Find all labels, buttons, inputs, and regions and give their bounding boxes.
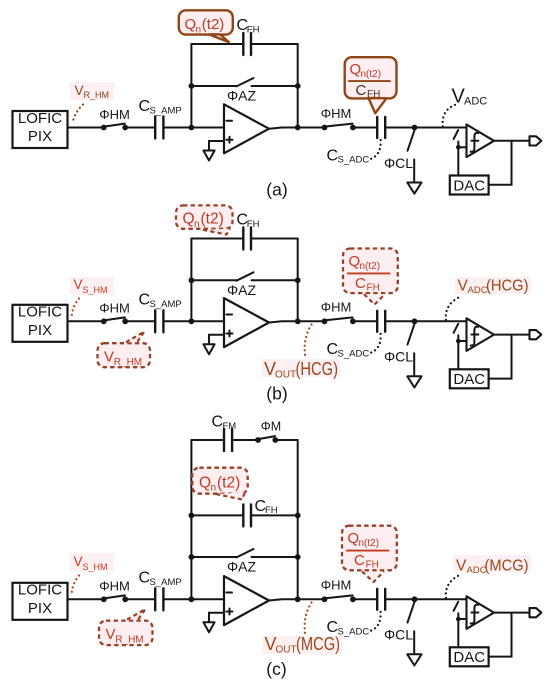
node right feedback junction PHI_AZ row (b) [295, 277, 301, 283]
ground below PHI_CL (a) [407, 183, 421, 194]
svg-text:ΦM: ΦM [261, 419, 281, 433]
svg-text:n: n [196, 24, 202, 35]
svg-text:S_HM: S_HM [83, 562, 108, 572]
callout dotted arc V_OUT(MCG) (c) [305, 603, 312, 634]
callout bubble Q_n(t2) (a) [179, 10, 233, 34]
svg-text:ΦAZ: ΦAZ [227, 559, 257, 575]
op-amp non-inverting input marker (a) [227, 139, 233, 141]
wire PHI_CL to ground (a) [413, 160, 415, 183]
output pad (b) [530, 330, 542, 339]
wire PHI_AZ branch right (c) [252, 556, 298, 558]
svg-text:ΦHM: ΦHM [99, 579, 130, 594]
op-amp amplifier (a) [224, 104, 269, 153]
node right feedback junction PHI_AZ row (c) [295, 554, 301, 560]
switch at comparator input (a) [454, 130, 459, 139]
wire reference node to comparator (a) [458, 146, 466, 148]
svg-text:C: C [327, 147, 339, 164]
svg-text:Q: Q [350, 61, 362, 78]
svg-text:OUT: OUT [275, 369, 296, 380]
svg-text:S_AMP: S_AMP [150, 577, 182, 588]
svg-text:Q: Q [348, 530, 360, 547]
label V_S_HM (b) [70, 277, 114, 295]
node summing junction at amplifier input (b) [189, 318, 195, 324]
callout dotted arc V_OUT(HCG) (b) [305, 325, 312, 356]
node V_ADC sampling node (c) [412, 596, 418, 602]
node comparator reference input (c) [456, 617, 461, 622]
wire PHI_AZ branch right (b) [252, 279, 298, 281]
svg-text:C: C [354, 552, 365, 569]
svg-text:(t2): (t2) [202, 16, 225, 33]
comparator (b) [467, 318, 495, 351]
svg-text:ADC: ADC [468, 285, 488, 296]
svg-text:(MCG): (MCG) [485, 558, 529, 575]
wire right feedback vertical (b) [297, 239, 299, 322]
switch PHI_AZ auto-zero (a) [237, 78, 254, 86]
switch PHI_AZ auto-zero (c) [237, 549, 254, 557]
node V_ADC sampling node (b) [412, 318, 418, 324]
wire C_S_ADC to comparator (b) [385, 320, 466, 322]
wire switch to C_S_ADC (b) [353, 320, 377, 322]
wire PHI_CL to ground (c) [413, 631, 415, 654]
svg-text:FH: FH [247, 219, 260, 230]
svg-text:(b): (b) [266, 384, 287, 404]
svg-text:n(t2): n(t2) [361, 69, 382, 80]
svg-text:(c): (c) [266, 659, 286, 679]
comparator clocked symbol (b) [470, 327, 479, 346]
callout dotted arc C_S_ADC (c) [371, 612, 381, 631]
svg-text:DAC: DAC [453, 371, 485, 388]
node left feedback junction PHI_AZ row (a) [189, 83, 195, 89]
svg-text:V: V [106, 626, 116, 643]
wire C_FH to right vertical (a) [251, 43, 298, 45]
callout dashed box Q_n(t2) (c) [192, 468, 247, 494]
svg-text:ΦHM: ΦHM [321, 578, 352, 593]
node summing junction at amplifier input (c) [189, 596, 195, 602]
wire switch to C_S_AMP (c) [125, 598, 155, 600]
node V_ADC sampling node (a) [412, 125, 418, 131]
ground below PHI_CL (b) [407, 376, 421, 387]
capacitor C_S_ADC (a) [376, 117, 378, 138]
label V_S_HM (c) [70, 553, 114, 571]
svg-text:DAC: DAC [453, 177, 485, 194]
wire comparator output (a) [494, 140, 530, 142]
svg-text:ΦCL: ΦCL [384, 349, 413, 365]
capacitor C_S_ADC (b) [376, 311, 378, 332]
wire reference node to comparator (c) [458, 618, 466, 620]
op-amp inverting input marker (c) [227, 592, 233, 594]
wire C_FH branch right (c) [251, 514, 298, 516]
svg-text:FH: FH [247, 24, 260, 35]
wire left feedback vertical (b) [190, 239, 192, 322]
wire top feedback branch left (b) [191, 238, 243, 240]
callout dotted arc V_ADC(HCG) (b) [446, 297, 460, 320]
svg-text:Q: Q [183, 211, 195, 228]
wire top feedback branch left (c) [191, 439, 224, 441]
callout dotted arc V_ADC(MCG) (c) [446, 575, 460, 598]
switch PHI_HM input sampling switch (a) [101, 125, 107, 131]
capacitor C_S_ADC (c) [376, 589, 378, 610]
svg-text:FH: FH [366, 560, 379, 571]
callout dotted arc V_S_HM (c) [72, 576, 80, 596]
svg-text:S_ADC: S_ADC [338, 155, 370, 166]
switch PHI_HM input sampling switch (b) [101, 318, 107, 324]
wire switch to C_S_ADC (a) [353, 127, 377, 129]
svg-text:S_ADC: S_ADC [338, 349, 370, 360]
wire non-inverting input to ground (a) [209, 141, 224, 151]
capacitor C_S_AMP (c) [154, 588, 156, 610]
switch at comparator input (c) [454, 602, 459, 611]
svg-text:V: V [74, 554, 83, 569]
capacitor C_FM (c) [223, 429, 225, 451]
op-amp inverting input marker (b) [227, 314, 233, 316]
svg-text:R_HM: R_HM [84, 90, 110, 100]
switch PHI_HM input sampling switch (c) [101, 596, 107, 602]
svg-text:FH: FH [367, 282, 380, 293]
callout dashed box V_R_HM (c) [99, 621, 153, 646]
svg-text:LOFIC: LOFIC [18, 582, 62, 599]
callout dotted arc V_ADC (a) [443, 104, 458, 127]
wire right feedback vertical (c) [297, 440, 299, 599]
wire op-amp output (b) [269, 321, 325, 322]
ground at op-amp non-inverting input (c) [203, 622, 214, 632]
op-amp non-inverting input marker (b) [227, 333, 233, 335]
wire left feedback vertical (c) [190, 440, 192, 599]
capacitor C_S_AMP (b) [154, 310, 156, 332]
callout dashed box V_R_HM (b) [98, 343, 151, 367]
wire right feedback vertical (a) [297, 44, 299, 128]
callout dotted arc V_R_HM (a) [73, 105, 84, 123]
DAC block (b) [450, 369, 489, 388]
callout dotted arc C_S_ADC (b) [371, 334, 381, 353]
wire PHI_AZ branch left (c) [191, 556, 236, 558]
svg-text:C: C [212, 414, 224, 431]
svg-text:S_ADC: S_ADC [338, 627, 370, 638]
op-amp inverting input marker (a) [227, 120, 233, 122]
svg-text:ΦHM: ΦHM [99, 107, 130, 122]
svg-text:C: C [139, 570, 151, 587]
callout dashed box Q_n(t2) (b) [176, 205, 233, 228]
op-amp non-inverting input marker (c) [227, 611, 233, 613]
svg-text:ΦHM: ΦHM [321, 300, 352, 315]
svg-text:ΦCL: ΦCL [384, 627, 413, 643]
capacitor C_FH (a) [242, 33, 244, 55]
wire comparator output to DAC feedback (c) [489, 613, 512, 657]
switch PHI_HM output sampling switch (c) [322, 596, 328, 602]
wire switch to C_S_ADC (c) [353, 598, 377, 600]
ground below PHI_CL (c) [407, 654, 421, 665]
wire comparator output to DAC feedback (b) [489, 335, 512, 379]
node comparator reference input (b) [456, 339, 461, 344]
node right feedback junction PHI_AZ row (a) [295, 83, 301, 89]
wire C_S_AMP to summing node (b) [163, 320, 224, 322]
comparator clocked symbol (a) [470, 133, 479, 152]
svg-text:FH: FH [367, 89, 380, 100]
svg-text:V: V [104, 348, 114, 365]
capacitor C_S_AMP (a) [154, 117, 156, 139]
switch PHI_M (c) [255, 437, 261, 443]
switch at comparator input (b) [454, 324, 459, 333]
comparator (a) [467, 125, 495, 158]
op-amp amplifier (b) [224, 298, 269, 347]
node comparator reference input (a) [456, 145, 461, 150]
callout dashed box fraction Q_n(t2)/C_FH (b) [343, 249, 398, 294]
svg-text:Q: Q [349, 253, 361, 270]
svg-text:LOFIC: LOFIC [18, 110, 62, 127]
svg-text:(t2): (t2) [217, 474, 240, 491]
svg-text:ADC: ADC [464, 96, 487, 108]
wire LOFIC output to switch PHI_HM (c) [68, 598, 104, 600]
wire C_FH branch left (c) [191, 514, 243, 516]
wire PHI_AZ branch left (a) [191, 85, 236, 87]
svg-text:n: n [194, 219, 200, 230]
node amplifier output junction (b) [295, 318, 301, 324]
wire C_S_ADC to comparator (c) [385, 598, 466, 600]
wire op-amp output (a) [269, 128, 325, 129]
node amplifier output junction (a) [295, 125, 301, 131]
svg-text:S_AMP: S_AMP [150, 105, 182, 116]
svg-text:C: C [139, 98, 151, 115]
wire LOFIC output to switch PHI_HM (b) [68, 320, 104, 322]
output pad (a) [530, 136, 542, 145]
svg-text:n(t2): n(t2) [360, 261, 381, 272]
wire C_FH to right vertical (b) [251, 238, 298, 240]
label V_ADC(HCG) (b) [455, 277, 531, 294]
wire PHI_AZ branch left (b) [191, 279, 236, 281]
svg-text:n: n [211, 483, 217, 494]
svg-text:ΦHM: ΦHM [99, 301, 130, 316]
svg-text:(t2): (t2) [201, 211, 224, 228]
DAC block (a) [450, 176, 489, 195]
svg-text:ΦHM: ΦHM [321, 106, 352, 121]
node right junction C_FH row (c) [295, 513, 301, 519]
svg-text:(HCG): (HCG) [296, 359, 339, 379]
wire comparator reference node (c) [457, 613, 459, 647]
node summing junction at amplifier input (a) [189, 125, 195, 131]
label V_OUT(HCG) (b) [262, 359, 340, 377]
wire comparator output (b) [494, 334, 530, 336]
callout dotted arc C_S_ADC (a) [371, 140, 381, 159]
switch PHI_CL clamp switch (b) [408, 324, 415, 345]
callout dashed box fraction Q_n(t2)/C_FH (c) [342, 526, 397, 571]
svg-text:ΦAZ: ΦAZ [227, 282, 257, 298]
node left feedback junction PHI_AZ row (b) [189, 277, 195, 283]
svg-text:C: C [327, 341, 339, 358]
svg-text:LOFIC: LOFIC [18, 304, 62, 321]
wire C_FM to switch PHI_M (c) [232, 439, 258, 441]
wire PHI_AZ branch right (a) [252, 85, 298, 87]
wire non-inverting input to ground (b) [209, 335, 224, 345]
svg-text:S_AMP: S_AMP [150, 299, 182, 310]
LOFIC PIX pixel block (b) [13, 305, 68, 342]
switch PHI_AZ auto-zero (b) [237, 272, 254, 280]
svg-text:R_HM: R_HM [115, 634, 143, 645]
wire C_S_AMP to summing node (a) [163, 127, 224, 129]
svg-text:PIX: PIX [28, 322, 52, 339]
node left junction C_FH row (c) [189, 513, 195, 519]
label V_ADC(MCG) (c) [453, 555, 531, 572]
ground at op-amp non-inverting input (a) [203, 151, 214, 161]
LOFIC PIX pixel block (c) [13, 583, 68, 620]
wire PHI_CL to ground (b) [413, 353, 415, 376]
svg-text:(a): (a) [266, 180, 287, 200]
svg-text:FM: FM [223, 421, 237, 432]
svg-text:PIX: PIX [28, 128, 52, 145]
switch PHI_CL clamp switch (c) [408, 602, 415, 623]
switch PHI_HM output sampling switch (a) [322, 125, 328, 131]
svg-text:DAC: DAC [453, 649, 485, 666]
svg-text:Q: Q [185, 16, 197, 33]
switch PHI_CL clamp switch (a) [408, 130, 415, 151]
DAC block (c) [450, 647, 489, 666]
svg-text:V: V [75, 83, 84, 98]
wire comparator output to DAC feedback (a) [489, 141, 512, 185]
svg-text:C: C [355, 275, 366, 292]
wire C_S_ADC to comparator (a) [385, 127, 466, 129]
svg-text:n(t2): n(t2) [359, 538, 380, 549]
svg-text:OUT: OUT [276, 645, 297, 656]
node amplifier output junction (c) [295, 596, 301, 602]
wire comparator output (c) [494, 612, 530, 614]
svg-text:(HCG): (HCG) [486, 278, 529, 295]
svg-text:R_HM: R_HM [114, 357, 142, 368]
LOFIC PIX pixel block (a) [13, 111, 68, 148]
callout bubble fraction Q_n(t2)/C_FH (a) [345, 57, 397, 98]
svg-text:(MCG): (MCG) [296, 634, 340, 654]
svg-text:ΦCL: ΦCL [384, 155, 413, 171]
svg-text:V: V [74, 277, 83, 292]
svg-text:PIX: PIX [28, 600, 52, 617]
wire reference node to comparator (b) [458, 340, 466, 342]
svg-text:C: C [139, 292, 151, 309]
wire non-inverting input to ground (c) [209, 613, 224, 623]
comparator (c) [467, 596, 495, 629]
svg-text:Q: Q [199, 474, 211, 491]
wire PHI_M to right vertical (c) [275, 439, 297, 441]
wire left feedback vertical (a) [190, 44, 192, 128]
svg-text:V: V [456, 558, 467, 575]
wire top feedback branch left (a) [191, 43, 243, 45]
node left feedback junction PHI_AZ row (c) [189, 554, 195, 560]
capacitor C_FH (b) [242, 228, 244, 250]
wire comparator reference node (b) [457, 335, 459, 369]
comparator clocked symbol (c) [470, 605, 479, 624]
wire LOFIC output to switch PHI_HM (a) [68, 127, 104, 129]
ground at op-amp non-inverting input (b) [203, 344, 214, 354]
svg-text:S_HM: S_HM [83, 285, 108, 295]
svg-text:C: C [356, 82, 367, 99]
wire comparator reference node (a) [457, 142, 459, 176]
switch PHI_HM output sampling switch (b) [322, 318, 328, 324]
capacitor C_FH (c) [242, 504, 244, 526]
svg-text:ΦAZ: ΦAZ [227, 88, 257, 104]
output pad (c) [530, 608, 542, 617]
wire op-amp output (c) [269, 599, 325, 600]
wire switch to C_S_AMP (a) [125, 127, 155, 129]
op-amp amplifier (c) [224, 576, 269, 625]
wire C_S_AMP to summing node (c) [163, 598, 224, 600]
wire switch to C_S_AMP (b) [125, 320, 155, 322]
label V_R_HM (a) [70, 82, 114, 100]
label V_OUT(MCG) (c) [262, 636, 342, 654]
callout dotted arc V_S_HM (b) [72, 299, 80, 319]
